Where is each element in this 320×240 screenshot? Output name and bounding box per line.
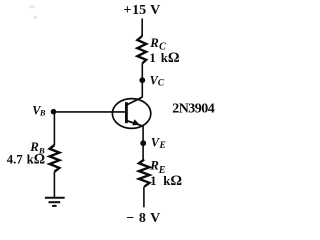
svg-text:VC: VC: [150, 73, 165, 88]
svg-text:4.7 kΩ: 4.7 kΩ: [7, 151, 45, 167]
svg-text:+15 V: +15 V: [123, 3, 160, 18]
svg-text:1 kΩ: 1 kΩ: [150, 173, 182, 189]
svg-text:VE: VE: [151, 135, 166, 150]
svg-text:VB: VB: [32, 103, 46, 117]
svg-text:RC: RC: [149, 36, 166, 53]
svg-text:1 kΩ: 1 kΩ: [149, 50, 179, 66]
svg-text:− 8 V: − 8 V: [126, 211, 160, 226]
svg-text:2N3904: 2N3904: [172, 102, 215, 117]
